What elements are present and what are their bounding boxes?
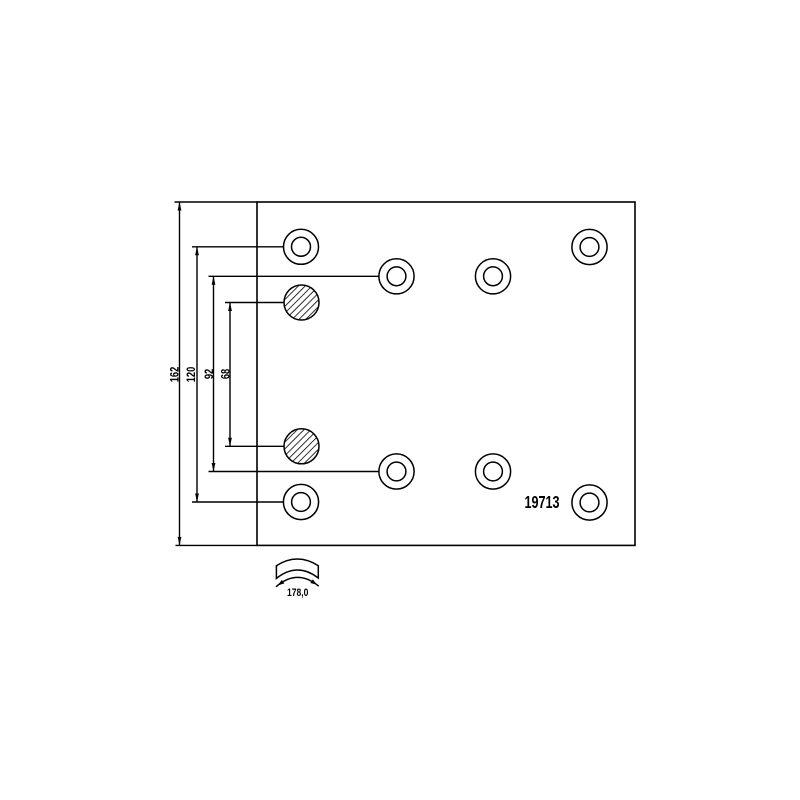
- hole ring col3 bottom: [475, 454, 510, 489]
- hatched hole lower: [284, 429, 319, 464]
- extension line 68 top: [225, 302, 284, 304]
- hole ring col2 top: [379, 259, 414, 294]
- extension line bottom edge: [176, 544, 258, 546]
- svg-text:162: 162: [170, 367, 182, 383]
- extension line 92 top: [209, 275, 380, 277]
- svg-text:120: 120: [186, 367, 198, 383]
- dimension line 92: [213, 276, 215, 471]
- dimension line 162: [179, 202, 181, 545]
- extension line top edge: [175, 201, 258, 203]
- hole ring top-left: [284, 229, 319, 264]
- dimension line 68: [229, 303, 231, 447]
- hole ring col2 bottom: [379, 454, 414, 489]
- width dimension arc: [276, 577, 319, 586]
- extension line 92 bottom: [209, 471, 380, 473]
- arc arrowhead right: [310, 579, 317, 584]
- dimension line 120: [196, 247, 198, 502]
- hole ring col4 top: [572, 229, 607, 264]
- extension line 120 bottom: [192, 501, 284, 503]
- extension line 120 top: [192, 246, 284, 248]
- hole ring bottom-left: [283, 484, 318, 519]
- svg-text:68: 68: [221, 369, 233, 380]
- svg-text:92: 92: [204, 369, 216, 380]
- svg-text:178,0: 178,0: [287, 587, 308, 599]
- hole ring col3 top: [475, 259, 510, 294]
- plate outline: [257, 202, 635, 545]
- hatched hole upper: [284, 285, 319, 320]
- extension line 68 bottom: [225, 445, 284, 447]
- hole ring col4 bottom: [572, 485, 607, 520]
- svg-text:19713: 19713: [524, 493, 559, 512]
- lining cross-section band: [276, 559, 318, 578]
- arc arrowhead left: [278, 580, 285, 586]
